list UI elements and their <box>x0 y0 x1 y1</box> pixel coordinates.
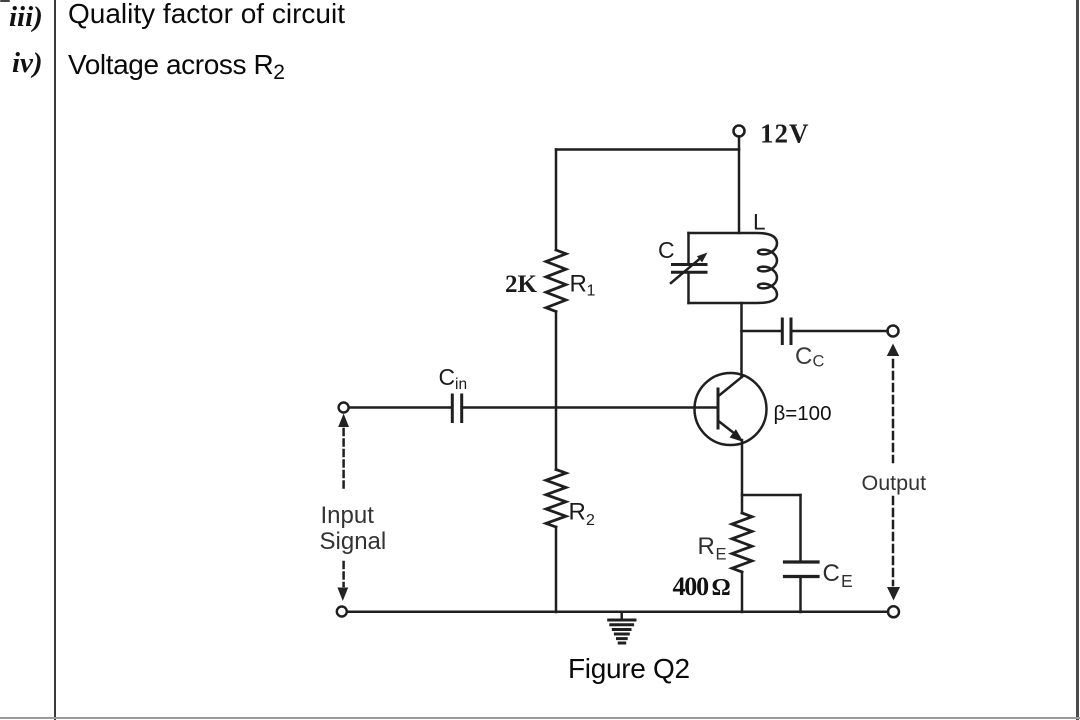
tank box with inductor L coil <box>689 233 778 303</box>
output arrow down <box>887 587 900 601</box>
variable capacitor arrowhead <box>697 253 708 263</box>
wire: CE branch top <box>799 495 802 562</box>
figure caption <box>568 653 690 685</box>
svg-text:β=100: β=100 <box>774 402 832 425</box>
svg-text:Ω: Ω <box>712 575 731 601</box>
wire: emitter vertical <box>741 440 744 513</box>
variable capacitor C plates <box>673 263 707 266</box>
terminal input bottom circle <box>337 607 347 617</box>
transistor collector stroke <box>719 376 744 396</box>
question text: Quality factor of circuit <box>68 0 345 30</box>
item label iii) <box>9 1 43 34</box>
capacitor Cin plates <box>451 395 454 422</box>
bottom page border <box>0 717 1080 719</box>
ground stub <box>620 612 623 619</box>
wire: R1 branch top <box>555 150 558 251</box>
top-left corner mark <box>0 0 10 2</box>
wire: R1 to R2 / base node <box>555 312 558 470</box>
question text: Voltage across R2 <box>68 49 285 85</box>
wire: CE branch bottom <box>799 577 802 613</box>
svg-text:Output: Output <box>862 471 927 495</box>
wire: top horizontal rail <box>556 148 739 151</box>
tank box left edge lower <box>687 272 690 303</box>
right page border <box>1076 0 1079 720</box>
ground bars <box>609 620 635 643</box>
input arrow down <box>337 588 348 602</box>
terminal input top circle <box>339 403 349 413</box>
resistor RE <box>732 513 752 572</box>
svg-text:C: C <box>658 237 675 263</box>
column divider line <box>54 0 56 720</box>
transistor emitter stroke <box>719 421 738 436</box>
svg-text:C: C <box>795 343 812 370</box>
svg-text:Input: Input <box>321 502 375 529</box>
wire: input to Cin <box>349 406 452 409</box>
output dashed line lower <box>892 497 895 585</box>
output dashed line upper <box>892 360 895 462</box>
transistor base bar <box>717 389 720 428</box>
svg-text:R: R <box>569 499 586 526</box>
svg-text:L: L <box>753 210 766 235</box>
wire: R2 bottom to ground rail <box>555 527 558 612</box>
svg-text:400: 400 <box>673 572 710 601</box>
svg-text:1: 1 <box>587 283 596 300</box>
wire: collector to Cc <box>742 330 783 333</box>
tank box left edge upper <box>687 233 690 265</box>
svg-text:C: C <box>439 364 456 390</box>
transistor emitter arrowhead <box>730 429 744 442</box>
svg-text:C: C <box>813 353 825 371</box>
input dashed line lower <box>342 562 345 586</box>
terminal 12V circle <box>734 126 745 137</box>
svg-text:12V: 12V <box>760 119 810 149</box>
terminal output bottom circle <box>888 606 899 617</box>
wire: RE bottom <box>741 572 744 612</box>
svg-text:C: C <box>823 560 840 587</box>
variable capacitor arrow shaft <box>671 256 703 283</box>
wire: Cc to output terminal <box>791 330 888 333</box>
svg-text:2K: 2K <box>505 271 538 298</box>
svg-text:E: E <box>716 546 727 564</box>
svg-text:R: R <box>570 271 587 298</box>
svg-text:Signal: Signal <box>320 528 387 555</box>
svg-text:2: 2 <box>586 512 595 529</box>
item label iv) <box>12 47 43 80</box>
capacitor CE plates <box>785 560 819 563</box>
input arrow up <box>338 414 349 428</box>
input dashed line upper <box>342 429 345 489</box>
transistor Q1 circle <box>695 373 767 445</box>
wire: Cin to base <box>462 406 718 409</box>
svg-text:R: R <box>698 533 715 560</box>
resistor R1 <box>546 250 566 312</box>
wire: 12V vertical down to tank <box>738 137 741 234</box>
wire: emitter jog to CE branch <box>742 494 801 497</box>
wire: collector vertical (tank bottom to transistor) <box>740 303 743 377</box>
capacitor Cc plates <box>781 319 784 344</box>
resistor R2 <box>546 470 566 528</box>
output arrow up <box>887 344 899 357</box>
svg-text:in: in <box>455 376 467 393</box>
svg-text:E: E <box>841 571 853 591</box>
wire: bottom ground rail <box>347 611 888 614</box>
terminal output top circle <box>888 326 899 337</box>
